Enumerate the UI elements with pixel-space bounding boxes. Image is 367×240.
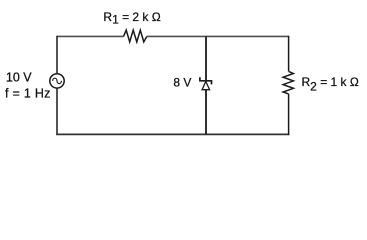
wire: top rail from left corner to R1 [57,35,124,37]
svg-text:8 V: 8 V [173,76,191,90]
label 8 V [173,76,191,90]
resistor R2 [283,71,293,94]
svg-text:R1 = 2 k Ω: R1 = 2 k Ω [103,10,160,27]
wire: left rail, top-left corner down to source [56,36,58,74]
label R1 = 2 k Ohm [103,10,160,27]
svg-text:10 V: 10 V [6,71,32,85]
wire: middle branch from zener down to bottom rail [205,90,207,135]
zener diode D1, 8 V [200,77,212,90]
label R2 = 1 k Ohm [302,75,359,94]
wire: middle branch from top rail down to zener [205,37,207,81]
resistor R1 [124,30,147,42]
svg-text:R2 = 1 k Ω: R2 = 1 k Ω [302,75,359,94]
wire: right rail, R2 down to bottom-right corner [288,94,290,135]
label 10 V / f = 1 Hz [5,71,51,101]
wire: right rail, top-right corner down to R2 [288,36,290,72]
wire: bottom rail [56,133,289,135]
wire: top rail from R1 to top-right corner [147,35,289,37]
source V1 (AC) [50,74,64,88]
wire: left rail, source down to bottom-left corner [56,88,58,135]
svg-text:f = 1 Hz: f = 1 Hz [5,87,51,101]
